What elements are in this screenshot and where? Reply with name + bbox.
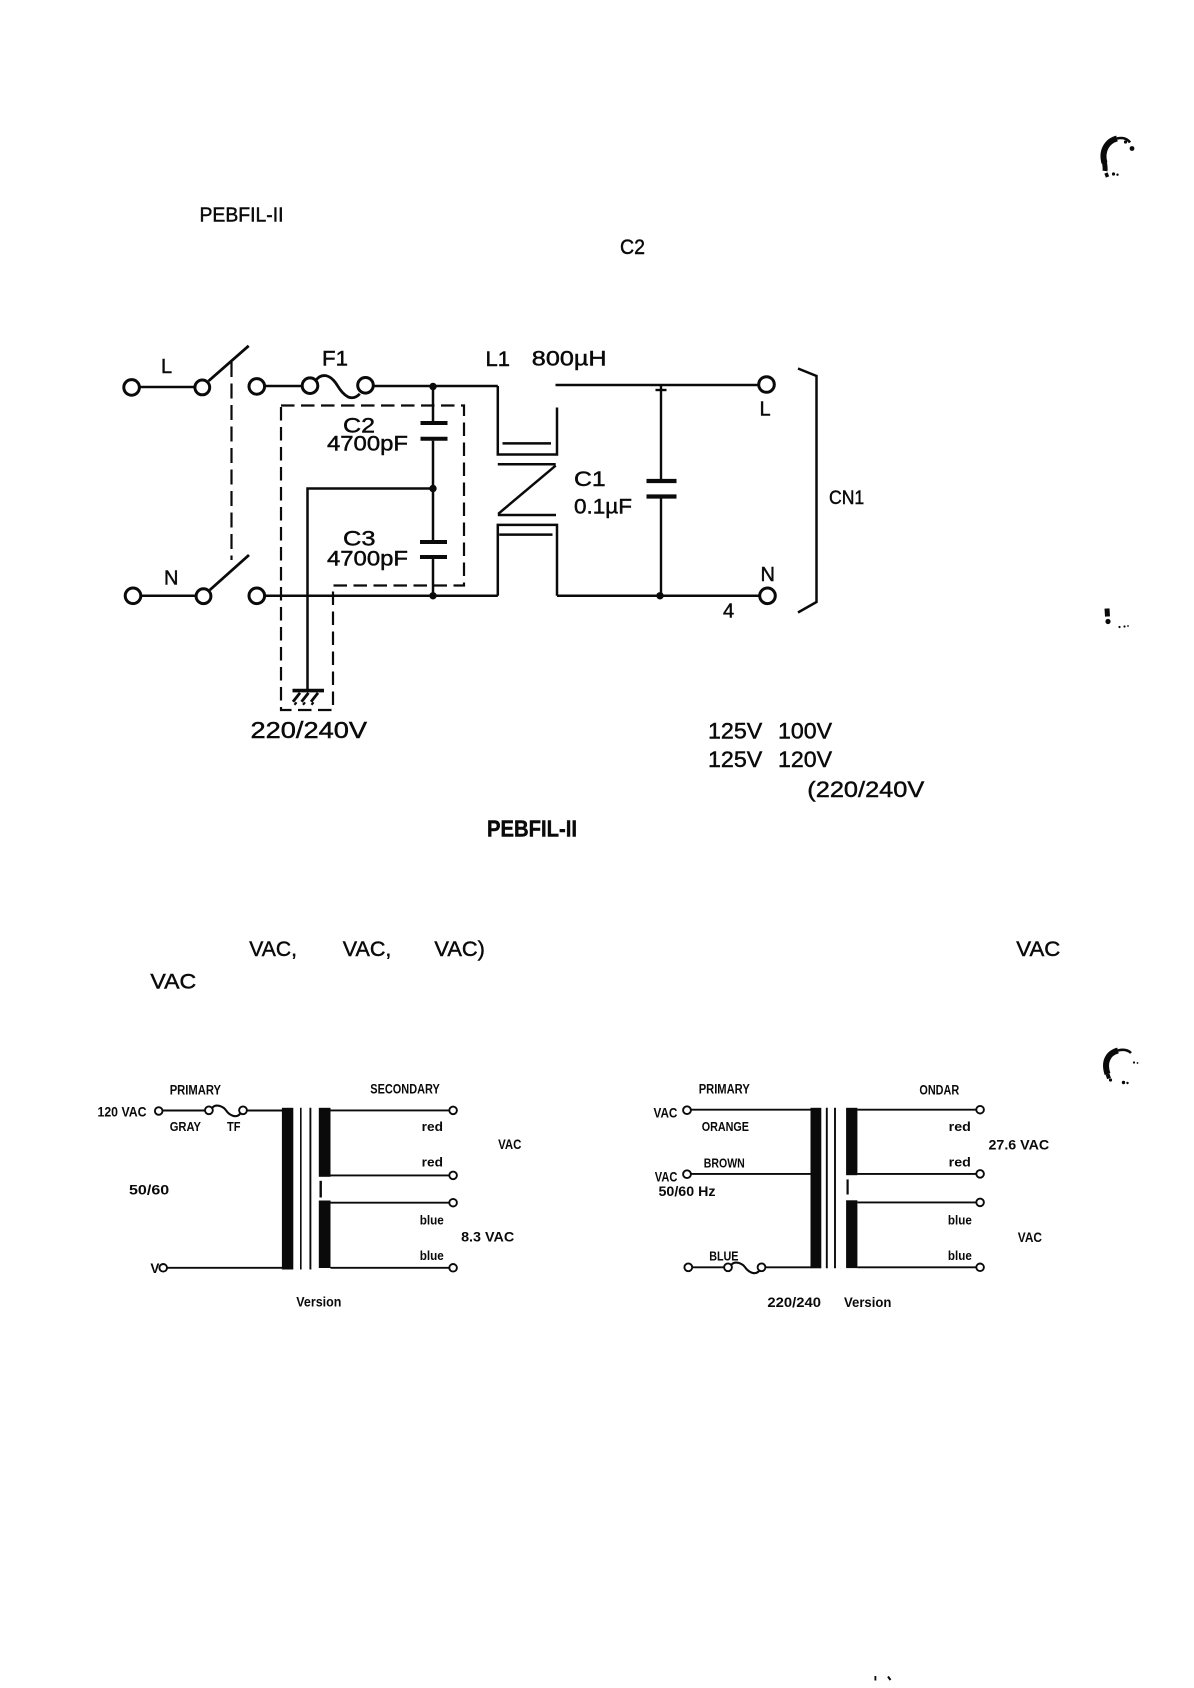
switch S1b pivot: [196, 589, 211, 604]
svg-text:4: 4: [723, 600, 734, 622]
wire fuse to node A: [374, 385, 498, 388]
wire L1 bottom output to N terminal: [557, 595, 759, 598]
svg-text:VAC: VAC: [150, 970, 196, 994]
ink smudge top right: [1103, 138, 1130, 177]
shield dashed enclosure around C2 C3 and ground: [281, 406, 464, 711]
wire C2 to node B: [432, 441, 435, 489]
wire T1 secondary 2: [331, 1174, 450, 1176]
fuse F1 right circle: [358, 378, 374, 394]
junction node C (C3 bottom on N line): [429, 592, 436, 599]
wire node A down to C2: [432, 387, 435, 422]
terminal circle filter N input: [249, 588, 265, 604]
inductor L1 core: [498, 464, 556, 515]
wire fuse TF to T1 core: [247, 1110, 284, 1112]
svg-text:SECONDARY: SECONDARY: [370, 1082, 440, 1097]
terminal circle T1 primary bottom: [159, 1264, 167, 1272]
junction node E (C1 bottom on N line): [656, 592, 663, 599]
svg-text:50/60 Hz: 50/60 Hz: [659, 1184, 716, 1199]
capacitor C1 tick: [656, 389, 667, 391]
wire T2 secondary 3: [857, 1201, 976, 1203]
svg-text:Version: Version: [844, 1295, 891, 1310]
transformer T2 center tap mark: [846, 1179, 848, 1194]
svg-text:VAC: VAC: [655, 1170, 678, 1185]
svg-text:800µH: 800µH: [532, 348, 607, 371]
terminal circle T2 secondary 2: [976, 1170, 984, 1178]
svg-text:120 VAC: 120 VAC: [98, 1105, 147, 1120]
transformer T1 center tap mark: [320, 1181, 322, 1198]
svg-text:VAC,: VAC,: [249, 938, 297, 961]
wire T2 primary mid to core: [691, 1173, 811, 1175]
svg-text:8.3 VAC: 8.3 VAC: [461, 1230, 514, 1245]
capacitor C2: [421, 423, 448, 439]
wire node D down to C1: [660, 386, 662, 480]
svg-text:220/240V: 220/240V: [251, 717, 368, 743]
svg-text:PRIMARY: PRIMARY: [170, 1083, 221, 1098]
svg-text:GRAY: GRAY: [170, 1119, 202, 1134]
svg-text:blue: blue: [420, 1248, 444, 1263]
svg-text:blue: blue: [948, 1248, 972, 1263]
wire C3 to node C: [432, 559, 435, 596]
terminal circle T1 secondary 2: [449, 1172, 457, 1180]
terminal circle L input: [124, 380, 140, 396]
transformer T2 secondary winding bar lower: [846, 1200, 857, 1268]
svg-text:L1: L1: [486, 348, 511, 371]
svg-text:PEBFIL-II: PEBFIL-II: [200, 205, 284, 227]
terminal circle T1 primary top: [155, 1107, 163, 1115]
svg-text:4700pF: 4700pF: [327, 548, 408, 571]
wire L input to switch: [140, 386, 194, 389]
svg-text:120V: 120V: [778, 747, 832, 772]
terminal circle T1 secondary 3: [449, 1199, 457, 1207]
wire node B to ground branch: [308, 489, 434, 691]
svg-text:PRIMARY: PRIMARY: [699, 1082, 750, 1097]
svg-text:BROWN: BROWN: [704, 1155, 745, 1170]
speck marks bottom: [875, 1676, 877, 1681]
terminal circle T2 primary top: [683, 1106, 691, 1114]
fuse F1 element: [317, 376, 360, 398]
wire C1 to node E: [660, 499, 662, 596]
fuse T2 right circle: [758, 1263, 766, 1271]
svg-text:VAC: VAC: [1016, 938, 1060, 961]
svg-text:0.1µF: 0.1µF: [574, 496, 632, 519]
wire to fuse F1: [265, 385, 302, 388]
fuse TF element: [212, 1106, 240, 1117]
wire T2 primary top to core: [691, 1109, 811, 1111]
svg-text:C2: C2: [620, 235, 645, 259]
svg-text:V: V: [150, 1261, 159, 1276]
svg-text:PEBFIL-II: PEBFIL-II: [487, 816, 577, 842]
terminal circle T1 secondary 1: [449, 1107, 457, 1115]
wire T1 secondary 3: [331, 1202, 450, 1204]
transformer T1 core lines: [300, 1108, 302, 1270]
terminal circle T2 primary bottom: [684, 1263, 692, 1271]
ink smudge right middle: [1105, 609, 1111, 617]
switch gang link (dashed): [230, 362, 232, 560]
ink smudge right at transformers: [1106, 1050, 1131, 1079]
transformer T1 primary winding bar: [282, 1108, 293, 1270]
capacitor C3: [420, 542, 447, 557]
terminal circle T2 secondary 3: [976, 1199, 984, 1207]
svg-text:blue: blue: [948, 1212, 972, 1227]
wire T2 primary bottom to fuse: [692, 1266, 724, 1268]
svg-text:N: N: [164, 568, 178, 590]
wire T2 secondary 1: [857, 1109, 976, 1111]
svg-text:red: red: [949, 1119, 971, 1134]
svg-text:red: red: [949, 1155, 971, 1170]
svg-text:red: red: [422, 1154, 443, 1169]
svg-text:C1: C1: [574, 467, 606, 491]
svg-text:27.6 VAC: 27.6 VAC: [989, 1137, 1050, 1152]
terminal circle T2 secondary 4: [976, 1264, 984, 1272]
svg-text:TF: TF: [227, 1119, 241, 1134]
terminal circle filter L input: [249, 379, 265, 395]
transformer T1 secondary winding bar upper: [319, 1108, 331, 1177]
svg-text:50/60: 50/60: [129, 1183, 169, 1198]
junction node A (fuse output / C2 top): [429, 383, 436, 390]
svg-text:F1: F1: [322, 348, 348, 371]
switch S1a blade: [209, 346, 249, 381]
switch S1a pivot: [195, 380, 210, 395]
svg-text:VAC,: VAC,: [343, 938, 392, 961]
terminal circle N input: [125, 588, 141, 604]
inductor L1 bottom winding: [498, 525, 557, 596]
terminal circle L output: [759, 377, 775, 393]
svg-text:ORANGE: ORANGE: [702, 1119, 750, 1134]
terminal circle T2 secondary 1: [976, 1106, 984, 1114]
inductor L1 top winding: [498, 386, 557, 455]
svg-text:VAC: VAC: [1018, 1230, 1042, 1245]
wire N line from filter input to L1 bottom: [265, 595, 498, 598]
svg-text:125V: 125V: [708, 719, 763, 744]
fuse TF right circle: [239, 1106, 247, 1114]
fuse T2 left circle: [724, 1263, 732, 1271]
wire T1 primary top to fuse TF: [163, 1110, 205, 1112]
svg-text:red: red: [422, 1119, 443, 1134]
fuse T2 element: [732, 1263, 760, 1274]
transformer T2 primary winding bar: [811, 1108, 822, 1269]
wire T2 secondary 4: [857, 1266, 976, 1268]
svg-text:VAC): VAC): [434, 938, 485, 961]
wire T1 secondary 4: [331, 1267, 450, 1269]
svg-text:N: N: [761, 564, 775, 586]
svg-text:(220/240V: (220/240V: [807, 777, 924, 802]
fuse TF left circle: [205, 1106, 213, 1114]
wire L1 top output to L terminal: [556, 384, 759, 387]
svg-text:VAC: VAC: [654, 1106, 678, 1121]
transformer T1 secondary winding bar lower: [319, 1201, 331, 1269]
terminal circle N output: [760, 588, 776, 604]
junction node B (C2/C3 midpoint): [429, 485, 436, 492]
wire fuse to T2 core: [766, 1266, 812, 1268]
svg-text:L: L: [760, 399, 771, 421]
fuse F1 left circle: [302, 378, 318, 394]
svg-text:L: L: [161, 356, 172, 378]
ground symbol: [293, 691, 325, 705]
wire T1 secondary 1: [331, 1109, 450, 1111]
svg-text:100V: 100V: [778, 719, 832, 744]
terminal circle T1 secondary 4: [449, 1264, 457, 1272]
wire T1 primary bottom to core: [167, 1267, 284, 1269]
svg-text:CN1: CN1: [829, 487, 864, 509]
connector CN1 bracket: [798, 369, 817, 613]
capacitor C1: [647, 481, 677, 497]
switch S1b blade: [210, 555, 249, 590]
svg-text:125V: 125V: [708, 747, 763, 772]
svg-text:Version: Version: [296, 1294, 341, 1309]
transformer T2 core lines: [826, 1108, 828, 1269]
transformer T2 secondary winding bar upper: [846, 1108, 857, 1175]
wire T2 secondary 2: [857, 1173, 976, 1175]
wire N input to switch: [141, 595, 195, 598]
svg-text:VAC: VAC: [498, 1137, 521, 1152]
svg-text:220/240: 220/240: [767, 1295, 821, 1310]
svg-text:blue: blue: [420, 1213, 444, 1228]
svg-text:BLUE: BLUE: [709, 1249, 739, 1264]
svg-text:ONDAR: ONDAR: [919, 1082, 959, 1097]
svg-text:4700pF: 4700pF: [327, 433, 408, 456]
wire node B down to C3: [432, 489, 435, 541]
terminal circle T2 primary mid: [683, 1170, 691, 1178]
